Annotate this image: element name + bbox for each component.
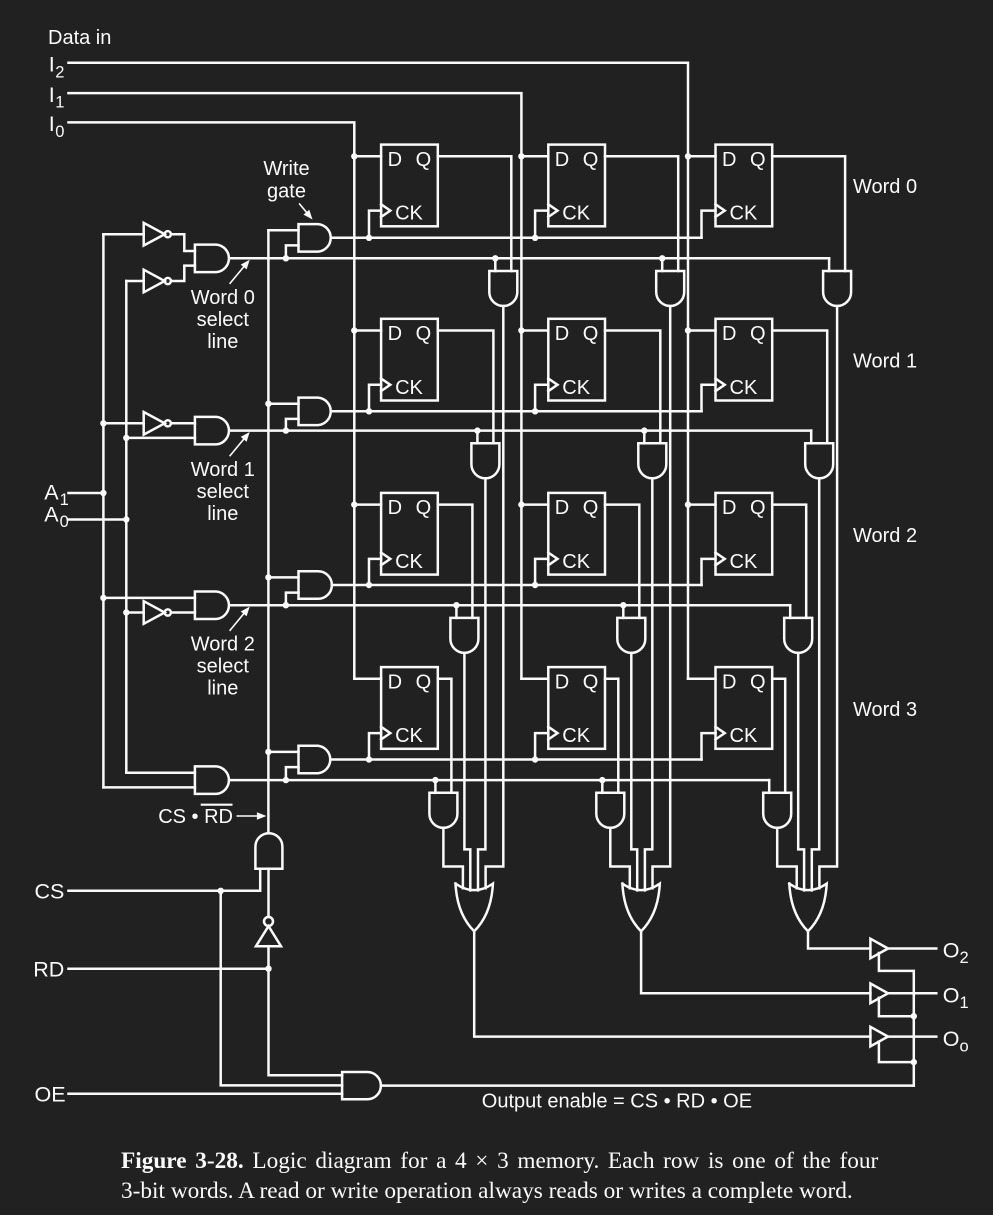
svg-text:Word 0: Word 0: [853, 176, 917, 198]
wire word0 line drop bit1: [661, 258, 664, 271]
svg-text:0: 0: [55, 123, 64, 141]
overline RD: [202, 804, 232, 806]
wire Q output word1 bit0: [438, 331, 494, 444]
junction clock line word2 bit0: [366, 582, 372, 588]
junction A0 bus word2: [123, 609, 129, 615]
wire D input word3 bit0: [354, 678, 381, 681]
wire word0 inverter A0 to select AND: [171, 266, 195, 281]
junction A1 bus input: [100, 490, 106, 496]
junction clock line word1 bit1: [532, 408, 538, 414]
AND gate CS.RDbar: [255, 833, 282, 869]
svg-text:D: D: [555, 149, 569, 171]
junction data I2 to word2 D input: [685, 501, 691, 507]
junction word0 select stub: [283, 255, 289, 261]
svg-text:D: D: [722, 323, 736, 345]
junction clock line word1 bit0: [366, 408, 372, 414]
svg-text:CK: CK: [395, 203, 423, 225]
AND output word2 bit0: [450, 618, 478, 653]
wire word0 line drop bit2: [828, 258, 831, 271]
wire D input word1 bit1: [521, 329, 548, 332]
tri-state buffer Oo: [870, 1027, 888, 1047]
wire word0 clock line: [332, 237, 702, 240]
AND word0 write gate: [299, 224, 331, 252]
inverter RD: [256, 917, 281, 946]
wire word1 line drop bit0: [476, 431, 479, 444]
wire A1 bus to word0 inverter: [103, 233, 143, 236]
wire A1 input: [69, 492, 104, 495]
junction CS: [218, 888, 224, 894]
wire OR bit2 output: [808, 931, 870, 948]
AND output word2 bit2: [784, 618, 812, 653]
svg-text:I: I: [49, 112, 55, 136]
wire output enable line: [381, 1084, 914, 1087]
wire Q output word2 bit0: [438, 505, 473, 618]
wire buffer O2 output: [888, 947, 936, 950]
svg-text:Q: Q: [583, 323, 599, 345]
svg-text:0: 0: [60, 513, 69, 531]
wire CK stub word0 bit2: [702, 211, 716, 238]
AND output word1 bit2: [805, 443, 833, 478]
wire OR bit1 output: [641, 931, 870, 993]
svg-text:D: D: [722, 497, 736, 519]
svg-text:line: line: [207, 331, 238, 353]
wire output AND word3 bit0 to OR: [443, 828, 463, 888]
wire D input word0 bit1: [521, 155, 548, 158]
junction data I2 to word0 D input: [685, 153, 691, 159]
svg-text:Q: Q: [416, 671, 432, 693]
svg-text:Figure 3-28. Logic diagram for: Figure 3-28. Logic diagram for a 4 × 3 m…: [121, 1148, 879, 1174]
wire word3 line drop bit1: [601, 780, 604, 793]
svg-text:CK: CK: [730, 725, 758, 747]
wire write bus to word0 write gate: [268, 229, 298, 232]
AND word1 write gate: [299, 398, 331, 426]
wire D input word1 bit2: [688, 329, 716, 332]
wire Q output word2 bit1: [605, 505, 639, 618]
junction data I2 to word1 D input: [685, 327, 691, 333]
svg-text:D: D: [555, 497, 569, 519]
svg-text:3-bit words. A read or write o: 3-bit words. A read or write operation a…: [121, 1178, 853, 1204]
AND word2 write gate: [299, 571, 332, 599]
arrow word0 select: [230, 260, 250, 284]
wire output AND word1 bit0 to OR: [478, 478, 485, 890]
junction clock line word3 bit0: [366, 756, 372, 762]
wire output AND word2 bit2 to OR: [798, 653, 804, 891]
wire Q output word3 bit1: [605, 679, 618, 793]
wire word2 inverter to select AND: [171, 611, 195, 614]
svg-text:select: select: [197, 656, 250, 678]
inverter word1 A1: [144, 412, 171, 435]
wire word3 select to write gate: [286, 767, 299, 780]
svg-text:CK: CK: [730, 551, 758, 573]
svg-text:2: 2: [960, 949, 969, 967]
svg-text:line: line: [207, 678, 238, 700]
wire A0 bus to word2 inverter: [126, 611, 143, 614]
svg-text:CK: CK: [395, 377, 423, 399]
svg-text:CK: CK: [395, 725, 423, 747]
svg-text:select: select: [197, 309, 250, 331]
wire output AND word2 bit1 to OR: [631, 653, 637, 891]
D flip-flop word3 bit0: [381, 667, 438, 749]
wire word2 select line: [230, 604, 790, 607]
wire A1 bus to word3 select AND: [103, 786, 194, 789]
wire word0 inverter A1 to select AND: [171, 234, 195, 251]
svg-text:D: D: [555, 671, 569, 693]
D flip-flop word0 bit2: [716, 145, 773, 227]
OR gate output bit0: [456, 884, 493, 932]
junction write bus word2: [265, 574, 271, 580]
wire OR bit0 output: [474, 931, 870, 1036]
AND output word1 bit0: [471, 443, 499, 478]
svg-text:A: A: [44, 481, 59, 505]
svg-text:O: O: [943, 1027, 960, 1051]
wire D input word0 bit2: [688, 155, 716, 158]
wire word2 line drop bit1: [622, 605, 625, 618]
junction data I0 to word1 D input: [351, 327, 357, 333]
wire word1 select to write gate: [286, 419, 299, 431]
D flip-flop word1 bit1: [548, 319, 605, 401]
svg-text:RD: RD: [33, 958, 64, 982]
svg-text:D: D: [388, 149, 402, 171]
svg-text:CK: CK: [562, 725, 590, 747]
svg-text:D: D: [722, 671, 736, 693]
OR gate output bit2: [789, 884, 826, 932]
junction enable Oo: [911, 1059, 917, 1065]
svg-text:D: D: [388, 671, 402, 693]
svg-text:CK: CK: [562, 551, 590, 573]
junction write bus word1: [265, 401, 271, 407]
svg-text:CK: CK: [395, 551, 423, 573]
wire RD to inverter: [267, 946, 270, 969]
svg-text:1: 1: [55, 94, 64, 112]
junction write bus word3: [265, 749, 271, 755]
wire word1 inverter to select AND: [171, 422, 195, 425]
wire D input word2 bit0: [354, 503, 381, 506]
svg-text:I: I: [49, 53, 55, 77]
AND output word3 bit0: [429, 793, 457, 828]
svg-text:Q: Q: [583, 497, 599, 519]
inverter word0 A0: [144, 270, 171, 293]
wire write bus to word1 write gate: [268, 402, 298, 405]
svg-text:CK: CK: [730, 203, 758, 225]
arrow CS.RDbar: [237, 812, 266, 820]
wire word2 select to write gate: [286, 593, 299, 606]
wire data I1 horizontal+vertical: [69, 93, 522, 679]
AND output word2 bit1: [617, 618, 645, 653]
junction word1 select stub: [283, 427, 289, 433]
wire D input word1 bit0: [354, 329, 381, 332]
wire CK stub word2 bit1: [535, 559, 548, 585]
AND output enable: [342, 1072, 381, 1099]
wire CK stub word0 bit1: [535, 211, 548, 238]
wire enable stub O1: [879, 998, 914, 1016]
wire A0 bus to word3 select AND: [126, 772, 195, 775]
D flip-flop word3 bit1: [548, 667, 605, 749]
wire word2 clock line: [332, 584, 702, 587]
svg-text:Word 2: Word 2: [853, 525, 917, 547]
AND word3 select: [195, 766, 229, 794]
svg-text:Q: Q: [583, 671, 599, 693]
wire word0 line drop bit0: [494, 258, 497, 271]
wire RD inverter to AND: [267, 869, 270, 917]
wire buffer Oo output: [888, 1035, 936, 1038]
junction data I1 to word0 D input: [518, 153, 524, 159]
wire word0 select line: [230, 257, 829, 260]
AND word3 write gate: [299, 746, 331, 773]
junction data I0 to word0 D input: [351, 153, 357, 159]
svg-text:OE: OE: [35, 1083, 66, 1107]
svg-text:CS: CS: [35, 880, 65, 904]
junction word1 line bit1: [641, 427, 647, 433]
svg-text:Q: Q: [416, 497, 432, 519]
wire word2 line drop bit2: [789, 605, 792, 618]
D flip-flop word1 bit2: [716, 319, 773, 401]
wire D input word0 bit0: [354, 155, 381, 158]
AND word2 select: [195, 592, 229, 620]
svg-text:O: O: [943, 939, 960, 963]
wire Q output word1 bit1: [605, 331, 660, 444]
svg-text:D: D: [555, 323, 569, 345]
wire output AND word2 bit0 to OR: [464, 653, 470, 891]
AND output word0 bit0: [489, 271, 517, 306]
junction clock line word0 bit1: [532, 235, 538, 241]
wire data I0 horizontal+vertical: [69, 122, 355, 678]
wire word3 clock line: [332, 758, 702, 761]
wire A0 bus to word1 select AND: [126, 437, 195, 440]
wire A0 bus vertical: [125, 281, 128, 773]
svg-text:Word 0: Word 0: [191, 287, 255, 309]
wire CK stub word2 bit0: [369, 559, 381, 585]
junction word0 line bit0: [492, 255, 498, 261]
wire write bus to word2 write gate: [268, 576, 298, 579]
junction word2 line bit0: [453, 602, 459, 608]
wire output AND word3 bit2 to OR: [777, 828, 797, 888]
AND output word0 bit1: [656, 271, 684, 306]
AND word1 select: [195, 417, 229, 445]
AND output word3 bit1: [596, 793, 624, 828]
D flip-flop word2 bit1: [548, 493, 605, 575]
arrow word2 select: [230, 607, 250, 631]
junction data I0 to word2 D input: [351, 501, 357, 507]
svg-text:Data in: Data in: [48, 27, 111, 49]
wire word3 line drop bit0: [434, 780, 437, 793]
AND output word0 bit2: [823, 271, 851, 306]
D flip-flop word2 bit2: [716, 493, 773, 575]
svg-text:Output enable = CS • RD • OE: Output enable = CS • RD • OE: [482, 1091, 752, 1113]
D flip-flop word2 bit0: [381, 493, 438, 575]
D flip-flop word0 bit0: [381, 145, 438, 227]
wire word1 select line: [230, 429, 811, 432]
wire output enable riser: [879, 953, 914, 1086]
svg-text:o: o: [960, 1037, 969, 1055]
wire output AND word0 bit1 to OR: [653, 306, 671, 888]
wire output AND word1 bit1 to OR: [645, 478, 652, 890]
svg-text:Word 3: Word 3: [853, 699, 917, 721]
wire word1 clock line: [332, 410, 702, 413]
wire Q output word0 bit0: [438, 156, 512, 271]
svg-text:Q: Q: [416, 323, 432, 345]
svg-text:Word 1: Word 1: [191, 459, 255, 481]
wire D input word2 bit1: [521, 503, 548, 506]
wire word3 line drop bit2: [768, 780, 771, 793]
svg-text:CK: CK: [562, 203, 590, 225]
tri-state buffer O2: [870, 939, 888, 959]
wire Q output word1 bit2: [772, 331, 827, 444]
wire Q output word3 bit2: [772, 679, 785, 793]
wire Q output word3 bit0: [438, 679, 452, 793]
wire Q output word2 bit2: [772, 505, 806, 618]
wire CK stub word1 bit0: [369, 385, 381, 412]
wire data I2 horizontal+vertical: [69, 63, 689, 679]
junction A0 bus word1: [123, 435, 129, 441]
wire CK stub word3 bit1: [535, 733, 548, 759]
svg-text:Write: Write: [263, 158, 309, 180]
wire enable stub Oo: [879, 1042, 914, 1063]
wire RD to output-enable AND: [269, 969, 343, 1075]
wire Q output word0 bit2: [772, 156, 845, 271]
wire CK stub word3 bit2: [702, 733, 716, 759]
svg-text:Word 1: Word 1: [853, 350, 917, 372]
wire CK stub word1 bit2: [702, 385, 716, 412]
junction clock line word0 bit0: [366, 235, 372, 241]
wire A0 bus to word0 inverter: [126, 280, 143, 283]
svg-text:select: select: [197, 481, 250, 503]
OR gate output bit1: [622, 884, 659, 932]
wire output AND word3 bit1 to OR: [610, 828, 630, 888]
junction word0 line bit1: [659, 255, 665, 261]
junction RD: [265, 966, 271, 972]
junction enable O1: [911, 1013, 917, 1019]
svg-text:D: D: [388, 323, 402, 345]
arrow write gate: [300, 204, 313, 220]
wire word0 select to write gate: [286, 245, 299, 258]
svg-text:CK: CK: [562, 377, 590, 399]
junction A1 bus word1: [100, 420, 106, 426]
wire CK stub word1 bit1: [535, 385, 548, 412]
wire output AND word0 bit2 to OR: [819, 306, 837, 888]
wire RD line: [69, 967, 269, 970]
junction A0 bus input: [123, 516, 129, 522]
wire Q output word0 bit1: [605, 156, 678, 271]
inverter word0 A1: [144, 223, 171, 246]
svg-text:2: 2: [55, 63, 64, 81]
junction data I1 to word2 D input: [518, 501, 524, 507]
wire A1 bus to word2 select AND: [103, 597, 194, 600]
wire word3 select line: [230, 779, 769, 782]
svg-text:Q: Q: [416, 149, 432, 171]
wire D input word3 bit2: [688, 678, 716, 681]
wire write bus to word3 write gate: [268, 751, 298, 754]
svg-text:CS • RD: CS • RD: [158, 806, 233, 828]
wire CK stub word2 bit2: [702, 559, 716, 585]
svg-text:D: D: [722, 149, 736, 171]
svg-text:Q: Q: [750, 671, 766, 693]
D flip-flop word1 bit0: [381, 319, 438, 401]
junction clock line word3 bit1: [532, 756, 538, 762]
wire CK stub word0 bit0: [369, 211, 381, 238]
svg-text:1: 1: [960, 994, 969, 1012]
svg-text:gate: gate: [267, 181, 306, 203]
svg-text:I: I: [49, 83, 55, 107]
svg-text:Q: Q: [583, 149, 599, 171]
junction word3 select stub: [283, 777, 289, 783]
junction word2 line bit1: [620, 602, 626, 608]
svg-text:Q: Q: [750, 323, 766, 345]
svg-text:D: D: [388, 497, 402, 519]
svg-text:CK: CK: [730, 377, 758, 399]
junction word1 line bit0: [474, 427, 480, 433]
wire write strobe bus vertical: [267, 230, 270, 833]
tri-state buffer O1: [870, 984, 888, 1004]
junction word2 select stub: [283, 602, 289, 608]
wire A1 bus vertical: [102, 234, 105, 787]
junction clock line word2 bit1: [532, 582, 538, 588]
AND output word3 bit2: [763, 793, 791, 828]
wire CS to output-enable AND: [221, 891, 342, 1086]
D flip-flop word0 bit1: [548, 145, 605, 227]
wire word1 line drop bit1: [643, 431, 646, 444]
wire D input word2 bit2: [688, 503, 716, 506]
junction word3 line bit1: [599, 777, 605, 783]
wire CS line: [69, 869, 261, 891]
wire OE line: [69, 1093, 343, 1096]
svg-text:Q: Q: [750, 149, 766, 171]
AND output word1 bit1: [638, 443, 666, 478]
wire word2 line drop bit0: [455, 605, 458, 618]
svg-text:line: line: [207, 503, 238, 525]
AND word0 select: [195, 245, 229, 273]
svg-text:Q: Q: [750, 497, 766, 519]
junction word3 line bit0: [432, 777, 438, 783]
wire D input word3 bit1: [521, 678, 548, 681]
wire output AND word1 bit2 to OR: [812, 478, 819, 890]
D flip-flop word3 bit2: [716, 667, 773, 749]
wire CK stub word3 bit0: [369, 733, 381, 759]
wire buffer O1 output: [888, 992, 936, 995]
wire A1 bus to word1 inverter: [103, 422, 143, 425]
svg-text:O: O: [943, 984, 960, 1008]
wire output AND word0 bit0 to OR: [486, 306, 504, 888]
svg-text:A: A: [44, 503, 59, 527]
svg-text:Word 2: Word 2: [191, 634, 255, 656]
wire A0 input: [69, 518, 127, 521]
wire word1 line drop bit2: [810, 431, 813, 444]
inverter word2 A0: [144, 601, 171, 624]
arrow word1 select: [230, 432, 250, 456]
svg-text:1: 1: [60, 491, 69, 509]
junction A1 bus word2: [100, 595, 106, 601]
junction data I1 to word1 D input: [518, 327, 524, 333]
